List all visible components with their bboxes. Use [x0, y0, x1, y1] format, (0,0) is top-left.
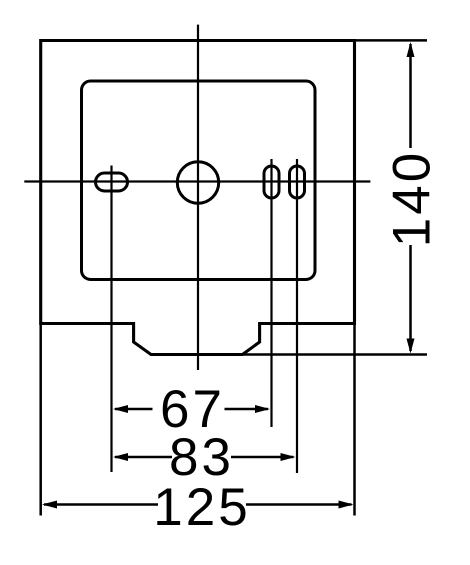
slot 2 centerline / extension: [296, 159, 298, 473]
dimension 140 arrow down: [407, 339, 415, 354]
dimension 140 line upper: [409, 44, 412, 148]
notch bottom extension line: [243, 353, 427, 356]
dimension 83 arrow left: [113, 453, 128, 461]
right edge extension line: [353, 324, 356, 516]
svg-text:140: 140: [383, 150, 442, 247]
left oval slot: [96, 173, 128, 191]
dimension 125 arrow right: [339, 501, 354, 509]
dimension 140 line lower: [409, 245, 412, 351]
svg-text:125: 125: [153, 478, 250, 537]
dimension 83 arrow right: [281, 453, 296, 461]
body outline with bottom notch: [41, 41, 355, 355]
small slot 2: [290, 166, 305, 198]
dimension 140 arrow up: [407, 42, 415, 57]
small slot 1: [264, 166, 279, 198]
dimension 67 arrow left: [113, 405, 128, 413]
dimension 125 line left: [44, 503, 158, 506]
left slot centerline / extension to dims: [110, 166, 112, 473]
dimension 67 arrow right: [255, 405, 270, 413]
dimension 83 line left: [115, 456, 172, 459]
vertical centerline: [197, 25, 199, 370]
inner rounded plate: [82, 81, 316, 280]
top edge extension line: [355, 39, 428, 42]
dimension 83 line right: [231, 456, 294, 459]
slot 1 centerline / extension: [270, 159, 272, 427]
horizontal centerline: [24, 180, 370, 182]
dimension 125 line right: [246, 503, 352, 506]
dimension 67 line left: [115, 408, 153, 411]
dimension 125 arrow left: [42, 501, 57, 509]
left edge extension line: [39, 324, 42, 516]
center hole: [177, 162, 218, 203]
dimension 67 line right: [225, 408, 269, 411]
